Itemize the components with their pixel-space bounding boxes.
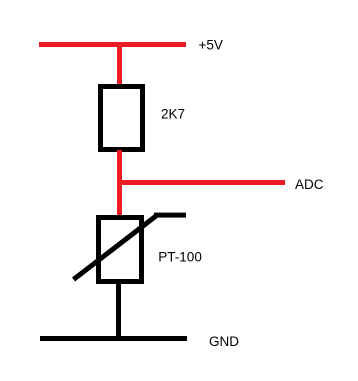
resistor 2K7 <box>101 87 143 150</box>
wire: PT-100 bottom down to ground rail <box>116 281 121 339</box>
node: junction of resistor, PT-100 and ADC wires <box>117 180 122 185</box>
svg-text:2K7: 2K7 <box>161 106 185 121</box>
RTD sensor PT-100 <box>74 213 187 282</box>
svg-text:GND: GND <box>209 334 239 349</box>
ground rail <box>40 336 187 341</box>
wire: resistor bottom down to PT-100 top <box>117 150 122 216</box>
+5V power rail <box>39 42 186 47</box>
wire: ADC branch to the right <box>117 180 285 185</box>
svg-text:PT-100: PT-100 <box>158 249 202 264</box>
svg-text:ADC: ADC <box>295 177 324 192</box>
wire: +5V rail down to resistor top <box>117 44 122 88</box>
svg-text:+5V: +5V <box>199 38 223 53</box>
